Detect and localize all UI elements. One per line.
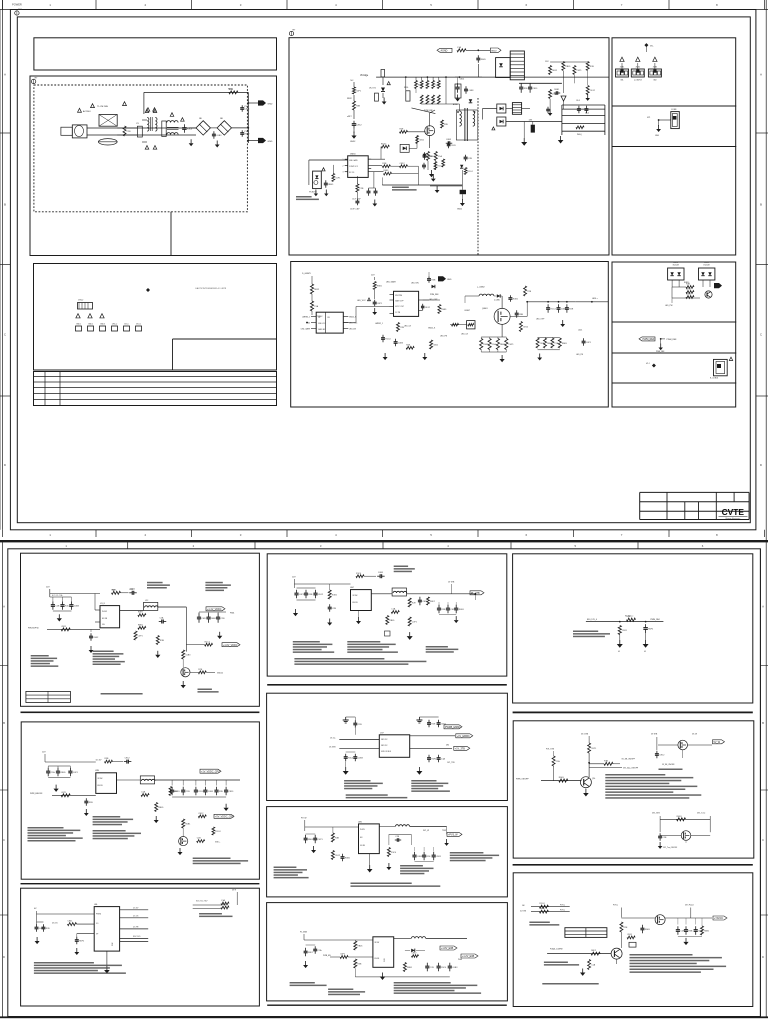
- svg-text:C0P1: C0P1: [356, 90, 362, 92]
- svg-text:LED_VCC: LED_VCC: [349, 323, 358, 325]
- svg-text:PVCC: PVCC: [613, 905, 619, 907]
- svg-text:C1A: C1A: [457, 46, 462, 49]
- svg-text:DD8: DD8: [112, 943, 114, 946]
- svg-text:C1A: C1A: [438, 155, 443, 158]
- svg-text:C1A: C1A: [556, 760, 561, 763]
- svg-text:C0P1: C0P1: [73, 772, 79, 774]
- svg-text:W8-Q: W8-Q: [577, 134, 582, 136]
- svg-text:GND: GND: [268, 104, 273, 106]
- svg-text:5V_SE_ON/OFF: 5V_SE_ON/OFF: [662, 764, 675, 766]
- svg-text:5VLar: 5VLar: [124, 323, 129, 326]
- svg-text:+1V_EMMC: +1V_EMMC: [457, 735, 470, 738]
- svg-text:B: B: [760, 203, 762, 207]
- svg-text:5V_STB: 5V_STB: [581, 734, 589, 736]
- svg-text:5VC Fixed: 5VC Fixed: [685, 905, 693, 907]
- svg-text:C1A: C1A: [221, 899, 226, 902]
- svg-text:CAUTION7208569/0114-1 4879: CAUTION7208569/0114-1 4879: [195, 287, 227, 290]
- svg-text:C0B3: C0B3: [216, 135, 222, 137]
- svg-text:R0B1: R0B1: [407, 967, 413, 969]
- svg-text:RB05: RB05: [328, 184, 334, 186]
- svg-text:B: B: [762, 721, 764, 725]
- svg-text:R1C4: R1C4: [391, 852, 397, 854]
- svg-text:RB05: RB05: [61, 772, 67, 774]
- svg-text:5V1_Tun_ON/OFF: 5V1_Tun_ON/OFF: [663, 847, 677, 849]
- svg-text:R1C4: R1C4: [539, 903, 545, 905]
- svg-text:+1V_VDDC_CPU: +1V_VDDC_CPU: [201, 770, 220, 773]
- svg-text:DC 1S: DC 1S: [133, 916, 139, 918]
- svg-text:PWB_EN: PWB_EN: [323, 955, 331, 957]
- svg-text:CY02: CY02: [244, 131, 250, 133]
- svg-text:EN FB: EN FB: [102, 618, 108, 620]
- svg-text:GN FB: GN FB: [360, 845, 365, 847]
- svg-text:GND2: GND2: [491, 50, 497, 52]
- svg-text:RB05: RB05: [645, 929, 651, 931]
- svg-text:DC PE: DC PE: [133, 927, 139, 929]
- svg-text:10UF_CAP: 10UF_CAP: [350, 208, 360, 211]
- svg-text:R1C4: R1C4: [551, 308, 557, 310]
- svg-text:PWM_REF: PWM_REF: [656, 351, 664, 353]
- svg-text:R2E: R2E: [444, 124, 449, 126]
- svg-text:5V1_Bas_ON/OFF: 5V1_Bas_ON/OFF: [623, 768, 639, 770]
- svg-text:COMP VCC: COMP VCC: [349, 166, 359, 168]
- svg-text:D: D: [762, 955, 764, 959]
- svg-text:CON8: CON8: [671, 109, 676, 111]
- svg-text:RD4: RD4: [112, 590, 116, 592]
- svg-text:LED_BX: LED_BX: [349, 329, 357, 331]
- svg-text:C0B3: C0B3: [185, 654, 191, 656]
- svg-text:C0B3: C0B3: [446, 139, 452, 141]
- svg-text:R0B1: R0B1: [384, 170, 390, 172]
- svg-text:1N4148: 1N4148: [672, 265, 678, 267]
- svg-text:RB05: RB05: [562, 343, 568, 345]
- svg-text:RB05: RB05: [559, 777, 565, 779]
- svg-text:LED_C8: LED_C8: [404, 326, 411, 328]
- svg-text:DC 3V: DC 3V: [96, 760, 102, 762]
- svg-text:D: D: [3, 955, 5, 959]
- svg-text:GND2: GND2: [88, 324, 93, 326]
- svg-text:GND2: GND2: [457, 209, 462, 211]
- svg-text:R2E: R2E: [406, 344, 411, 346]
- svg-text:CE12: CE12: [425, 307, 431, 309]
- svg-text:C1A: C1A: [391, 608, 396, 611]
- svg-text:R0B1: R0B1: [704, 930, 710, 932]
- svg-text:LED_C8: LED_C8: [461, 334, 468, 336]
- svg-text:RB1L: RB1L: [404, 87, 409, 89]
- svg-text:R0B1: R0B1: [513, 298, 519, 300]
- svg-text:SDC SCL R67: SDC SCL R67: [196, 901, 208, 903]
- svg-text:R1C4: R1C4: [356, 573, 362, 575]
- svg-text:R1017: R1017: [381, 144, 386, 146]
- svg-text:GND: GND: [268, 141, 273, 143]
- svg-text:C0B3: C0B3: [398, 342, 404, 344]
- svg-text:3V1_W: 3V1_W: [423, 830, 429, 832]
- svg-text:C0P1: C0P1: [586, 342, 592, 344]
- svg-text:C1A: C1A: [51, 771, 56, 774]
- svg-text:PB01: PB01: [230, 613, 234, 615]
- svg-text:LMR8Z_1: LMR8Z_1: [302, 317, 310, 319]
- svg-text:C2B: C2B: [197, 838, 202, 840]
- svg-text:EN FB: EN FB: [353, 602, 359, 604]
- svg-text:VLJ: VLJ: [646, 363, 649, 365]
- svg-text:LED_VIN: LED_VIN: [411, 283, 419, 285]
- svg-text:R2E: R2E: [431, 723, 436, 725]
- svg-text:RB05: RB05: [481, 59, 487, 61]
- svg-text:Q_GB2V3: Q_GB2V3: [634, 80, 642, 82]
- svg-text:R0B10: R0B10: [684, 282, 689, 284]
- svg-text:LED_VCC: LED_VCC: [357, 300, 366, 302]
- svg-text:P0E8: P0E8: [458, 959, 462, 961]
- svg-text:C0B3: C0B3: [427, 156, 433, 158]
- svg-text:2: 2: [343, 165, 344, 167]
- svg-text:CM34: CM34: [350, 154, 356, 156]
- svg-text:R2E: R2E: [524, 88, 529, 90]
- svg-text:GATE BX: GATE BX: [318, 328, 326, 331]
- svg-text:8X0_12V_0: 8X0_12V_0: [587, 619, 597, 621]
- svg-text:R3B: R3B: [105, 758, 110, 760]
- svg-text:GND: GND: [447, 279, 452, 281]
- svg-text:R0B1: R0B1: [554, 89, 560, 91]
- svg-text:C2B: C2B: [663, 837, 668, 839]
- svg-text:RB05: RB05: [357, 945, 363, 947]
- svg-text:5L STB: 5L STB: [520, 911, 527, 913]
- svg-text:R2E: R2E: [400, 128, 405, 130]
- svg-text:R3B: R3B: [604, 760, 609, 762]
- svg-text:C0P1: C0P1: [340, 954, 346, 956]
- svg-text:A: A: [762, 604, 764, 608]
- svg-text:R2E: R2E: [569, 308, 574, 310]
- svg-text:LED_GATE: LED_GATE: [301, 328, 311, 331]
- svg-text:PVCC: PVCC: [560, 910, 566, 912]
- svg-text:LED_OVP: LED_OVP: [536, 319, 545, 321]
- svg-text:C0P1: C0P1: [318, 839, 324, 841]
- svg-text:EN FB: EN FB: [375, 958, 380, 960]
- svg-text:C2B: C2B: [360, 188, 365, 190]
- svg-text:PWM_R84: PWM_R84: [650, 619, 659, 621]
- svg-text:PWRB_EMMC: PWRB_EMMC: [445, 726, 461, 729]
- svg-text:C2B: C2B: [468, 158, 473, 160]
- svg-text:PRM_REF: PRM_REF: [430, 294, 439, 296]
- svg-text:CE12: CE12: [686, 289, 692, 291]
- svg-text:C1A: C1A: [160, 616, 165, 619]
- svg-text:EC1 C1 C1A: EC1 C1 C1A: [52, 594, 63, 597]
- svg-text:C0P1: C0P1: [138, 635, 144, 637]
- svg-text:PVCC: PVCC: [560, 905, 566, 907]
- svg-text:5V STB: 5V STB: [651, 734, 658, 736]
- svg-text:GND2_K: GND2_K: [428, 328, 436, 330]
- svg-text:R1C4: R1C4: [441, 967, 447, 969]
- svg-text:IN SW: IN SW: [98, 778, 103, 780]
- svg-text:GND GATE: GND GATE: [349, 159, 359, 162]
- svg-text:1V 3TB: 1V 3TB: [448, 582, 455, 584]
- svg-text:C0B3: C0B3: [539, 908, 545, 910]
- svg-text:G8: G8: [522, 905, 524, 907]
- svg-text:C2B: C2B: [221, 618, 226, 620]
- svg-text:Vbridge: Vbridge: [360, 74, 369, 77]
- svg-text:B: B: [3, 721, 5, 725]
- svg-text:+1.2V_E0B: +1.2V_E0B: [462, 955, 475, 958]
- svg-text:IN SW: IN SW: [353, 595, 358, 597]
- svg-text:AGND: AGND: [441, 50, 448, 53]
- svg-text:+1V_3TB: +1V_3TB: [455, 748, 465, 751]
- svg-text:C2B: C2B: [395, 836, 400, 838]
- svg-text:RB05: RB05: [377, 285, 383, 287]
- svg-text:Q5L: Q5L: [592, 778, 595, 780]
- svg-text:C0B3: C0B3: [378, 572, 384, 574]
- svg-text:VXLJ: VXLJ: [78, 300, 83, 302]
- svg-text:R1C4: R1C4: [385, 338, 391, 340]
- svg-text:R0B1: R0B1: [185, 823, 191, 825]
- svg-text:R0B1: R0B1: [442, 309, 448, 311]
- svg-text:R3B: R3B: [590, 66, 595, 68]
- svg-text:C8: C8: [318, 317, 320, 319]
- svg-text:FB2 V3C: FB2 V3C: [381, 745, 388, 747]
- svg-text:R1C4: R1C4: [187, 128, 193, 130]
- svg-text:VZ1: VZ1: [647, 117, 650, 119]
- svg-text:C8-2: C8-2: [585, 113, 589, 115]
- svg-text:C1A: C1A: [492, 343, 497, 346]
- svg-text:CE12: CE12: [659, 754, 665, 756]
- svg-text:R3B: R3B: [431, 279, 436, 281]
- svg-text:U2B: U2B: [95, 770, 100, 772]
- svg-text:U0V: U0V: [358, 822, 363, 824]
- svg-text:AGND: AGND: [453, 103, 459, 106]
- svg-text:R0B1: R0B1: [686, 294, 692, 296]
- svg-text:PL_E0B: PL_E0B: [300, 932, 308, 934]
- svg-text:UN2LOR BLD: UN2LOR BLD: [381, 751, 392, 753]
- svg-text:C2B: C2B: [127, 131, 132, 133]
- svg-text:UVCC OVP: UVCC OVP: [395, 306, 405, 308]
- svg-text:GB2: GB2: [653, 80, 656, 82]
- svg-text:VIN PRM: VIN PRM: [395, 295, 403, 297]
- svg-text:R3B: R3B: [519, 314, 524, 316]
- svg-text:POWER: POWER: [12, 2, 22, 6]
- svg-text:R3B: R3B: [335, 837, 340, 839]
- svg-text:L0DL: L0DL: [578, 330, 582, 332]
- svg-text:RB05: RB05: [158, 807, 164, 809]
- svg-text:CE12: CE12: [335, 855, 341, 857]
- svg-text:PWR_ON/OFF: PWR_ON/OFF: [516, 779, 529, 781]
- svg-text:C1A: C1A: [318, 949, 323, 952]
- svg-text:D0B0: D0B0: [704, 262, 709, 264]
- svg-text:5V_W: 5V_W: [692, 734, 697, 736]
- svg-text:C1A: C1A: [555, 342, 560, 345]
- svg-text:RB05: RB05: [565, 66, 571, 68]
- svg-text:05: 05: [618, 651, 620, 653]
- svg-text:T1-CM 2MH: T1-CM 2MH: [97, 106, 108, 108]
- svg-text:3: 3: [343, 172, 344, 174]
- svg-text:LED_PW: LED_PW: [665, 305, 673, 307]
- svg-text:R2E: R2E: [46, 928, 51, 930]
- svg-text:R3B: R3B: [309, 594, 314, 596]
- svg-text:D_GMMY: D_GMMY: [302, 273, 311, 275]
- svg-text:+1.0V_VDDC: +1.0V_VDDC: [223, 644, 238, 647]
- svg-text:R1C4: R1C4: [205, 641, 211, 643]
- svg-text:D_0M0: D_0M0: [494, 300, 500, 302]
- svg-text:LED_PB: LED_PB: [576, 354, 584, 356]
- svg-text:PWR_EN/OFF: PWR_EN/OFF: [30, 793, 43, 795]
- svg-text:RB05: RB05: [221, 904, 227, 906]
- svg-text:C1A: C1A: [441, 757, 446, 760]
- svg-text:C1A: C1A: [314, 305, 319, 308]
- svg-text:C0B3: C0B3: [358, 757, 364, 759]
- svg-text:5V1_STB: 5V1_STB: [652, 813, 660, 815]
- svg-text:R3B: R3B: [356, 105, 361, 107]
- svg-text:LMR8Z_1: LMR8Z_1: [375, 323, 383, 325]
- svg-text:C0B3: C0B3: [452, 967, 458, 969]
- svg-text:C2B: C2B: [55, 605, 60, 607]
- svg-text:5V_W: 5V_W: [714, 741, 721, 744]
- svg-text:C0P1: C0P1: [591, 748, 597, 750]
- svg-text:R3B: R3B: [357, 963, 362, 965]
- svg-text:5V1_Tune: 5V1_Tune: [697, 813, 705, 815]
- svg-text:LED_GATE: LED_GATE: [386, 281, 396, 284]
- svg-text:C2B: C2B: [332, 608, 337, 610]
- svg-text:JR_TX1: JR_TX1: [369, 88, 376, 90]
- svg-text:+PV3_W: +PV3_W: [448, 834, 458, 837]
- svg-text:C1A: C1A: [591, 963, 596, 966]
- svg-text:+1.1V_VDDC: +1.1V_VDDC: [207, 608, 222, 611]
- svg-text:1V_3a: 1V_3a: [330, 738, 335, 740]
- svg-text:C0P1: C0P1: [509, 344, 515, 346]
- svg-text:5V_SE_ON/OFF: 5V_SE_ON/OFF: [622, 759, 636, 761]
- svg-text:GND2: GND2: [350, 141, 355, 143]
- svg-text:R7_850u.e: R7_850u.e: [625, 616, 633, 618]
- svg-text:PV_W: PV_W: [301, 818, 307, 820]
- svg-text:CE12: CE12: [198, 813, 204, 815]
- svg-text:CX PB: CX PB: [395, 312, 401, 314]
- svg-text:R2E: R2E: [624, 927, 629, 929]
- svg-text:C0P1: C0P1: [335, 177, 341, 179]
- svg-text:Shiyuan Electronics: Shiyuan Electronics: [725, 517, 740, 520]
- svg-text:05: 05: [644, 651, 646, 653]
- svg-text:C0B3: C0B3: [74, 605, 80, 607]
- svg-text:CE12: CE12: [412, 953, 418, 955]
- svg-text:CVTE: CVTE: [722, 507, 745, 517]
- svg-text:PWRD: PWRD: [96, 914, 102, 916]
- svg-text:A: A: [3, 604, 5, 608]
- svg-text:R2E: R2E: [427, 856, 432, 858]
- svg-text:GATE OVP: GATE OVP: [395, 300, 404, 303]
- svg-text:V0D +: V0D +: [215, 841, 221, 843]
- svg-text:C0P1: C0P1: [412, 621, 418, 623]
- svg-text:CY01: CY01: [244, 106, 250, 108]
- svg-text:CE12: CE12: [400, 163, 406, 165]
- svg-text:C0B3: C0B3: [208, 791, 214, 793]
- svg-text:C202: C202: [129, 589, 133, 591]
- svg-text:+5V_VDDC_CPU: +5V_VDDC_CPU: [215, 816, 234, 819]
- svg-text:R2E: R2E: [412, 602, 417, 604]
- svg-text:C1A: C1A: [141, 791, 146, 794]
- svg-text:EN FB: EN FB: [98, 785, 104, 787]
- svg-text:a_L2M0Z: a_L2M0Z: [477, 287, 485, 289]
- svg-text:XBL: XBL: [620, 80, 623, 82]
- svg-text:K0B0T: K0B0T: [465, 310, 471, 312]
- svg-text:A: A: [4, 73, 6, 77]
- svg-text:CE12: CE12: [590, 90, 596, 92]
- svg-text:C: C: [3, 838, 5, 842]
- svg-text:RB05: RB05: [308, 839, 314, 841]
- svg-text:IN SW: IN SW: [375, 942, 380, 944]
- svg-text:D82: D82: [446, 745, 449, 747]
- svg-text:A: A: [760, 73, 762, 77]
- svg-text:R0B1: R0B1: [459, 609, 465, 611]
- svg-text:C: C: [762, 838, 764, 842]
- svg-text:C0P1: C0P1: [61, 792, 67, 794]
- svg-text:1N4148: 1N4148: [703, 265, 709, 267]
- svg-text:C2B: C2B: [430, 967, 435, 969]
- svg-text:C0P1: C0P1: [377, 303, 383, 305]
- svg-text:CE12: CE12: [125, 757, 131, 759]
- svg-text:C2B: C2B: [358, 724, 363, 726]
- svg-text:R2E: R2E: [198, 669, 203, 671]
- svg-text:PWM_FBF: PWM_FBF: [424, 110, 434, 112]
- svg-text:Q0B01: Q0B01: [482, 308, 488, 310]
- svg-text:R0B1: R0B1: [345, 857, 351, 859]
- svg-text:DC 3V: DC 3V: [133, 908, 139, 910]
- svg-text:VDD A: VDD A: [217, 672, 223, 675]
- svg-text:LEDL+: LEDL+: [592, 298, 599, 300]
- svg-text:B: B: [4, 203, 6, 207]
- svg-text:R1C4: R1C4: [468, 171, 474, 173]
- svg-text:C2B: C2B: [186, 791, 191, 793]
- svg-text:CE12: CE12: [318, 594, 324, 596]
- svg-text:NR01: NR01: [228, 89, 234, 91]
- svg-text:C0B3: C0B3: [468, 90, 474, 92]
- svg-text:R3B: R3B: [382, 163, 387, 165]
- svg-text:RB12: RB12: [347, 98, 352, 100]
- svg-text:GND VCC: GND VCC: [318, 323, 327, 325]
- svg-text:D0B0: D0B0: [673, 262, 678, 264]
- svg-text:IN SW: IN SW: [360, 829, 365, 831]
- svg-text:FB2 V3C: FB2 V3C: [381, 739, 388, 741]
- svg-text:R3B: R3B: [442, 609, 447, 611]
- svg-text:C8-5: C8-5: [576, 100, 580, 102]
- svg-text:CE12: CE12: [357, 124, 363, 126]
- svg-text:5V R: 5V R: [232, 890, 237, 892]
- svg-text:10uF CAP: 10uF CAP: [352, 198, 361, 201]
- svg-text:C2B: C2B: [527, 291, 532, 293]
- svg-text:AC250U: AC250U: [83, 110, 91, 113]
- svg-text:1V1_T2B: 1V1_T2B: [447, 762, 455, 764]
- svg-text:R3B: R3B: [689, 930, 694, 932]
- svg-text:IN SW: IN SW: [102, 611, 107, 613]
- svg-text:R1C4: R1C4: [215, 831, 221, 833]
- svg-text:NC CS: NC CS: [349, 172, 355, 174]
- svg-text:SDC SCL: SDC SCL: [133, 936, 141, 938]
- svg-text:R2E: R2E: [219, 791, 224, 793]
- svg-text:C0P1: C0P1: [577, 70, 583, 72]
- svg-text:PWM_REF: PWM_REF: [667, 339, 678, 341]
- svg-text:CE12: CE12: [523, 326, 529, 328]
- svg-text:PWM_REF: PWM_REF: [643, 338, 655, 341]
- svg-text:R3B: R3B: [89, 802, 94, 804]
- svg-text:R3B: R3B: [160, 640, 165, 642]
- svg-text:RB05: RB05: [389, 620, 395, 622]
- svg-text:1V_8TB: 1V_8TB: [329, 747, 336, 749]
- svg-text:R0B1: R0B1: [677, 816, 683, 818]
- svg-text:E_CON01: E_CON01: [710, 378, 718, 380]
- svg-text:DC 1S: DC 1S: [52, 923, 58, 925]
- svg-text:PV1_STB: PV1_STB: [546, 749, 555, 751]
- svg-text:5VLsn: 5VLsn: [136, 324, 141, 326]
- svg-text:13VLar: 13VLar: [112, 323, 118, 326]
- svg-text:GND3: GND3: [100, 324, 105, 326]
- svg-text:RB05: RB05: [138, 624, 144, 626]
- svg-text:R1C4: R1C4: [348, 757, 354, 759]
- svg-text:+1.8V_E0B: +1.8V_E0B: [441, 947, 454, 950]
- svg-text:LED_PB: LED_PB: [440, 336, 448, 338]
- svg-text:GND: GND: [655, 135, 660, 137]
